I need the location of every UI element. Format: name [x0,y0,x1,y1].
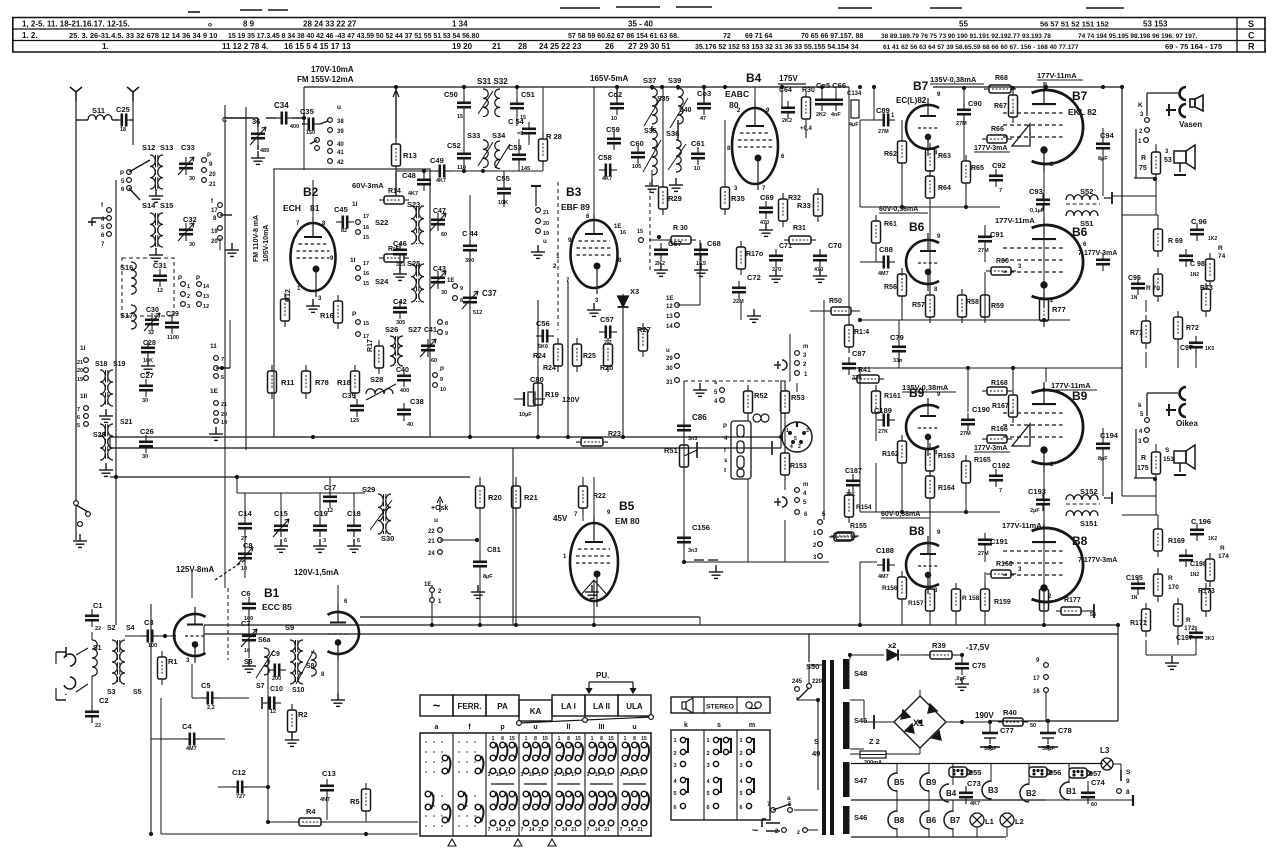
resistor R169 [1154,523,1163,557]
wire [132,101,134,145]
svg-text:R30: R30 [802,87,815,94]
wire B6 ground bus [860,319,1070,321]
svg-text:4N7: 4N7 [320,797,330,803]
wire [1102,453,1104,496]
phone plug 2 [1166,109,1176,111]
svg-text:R77: R77 [1052,305,1066,314]
resistor R54h [829,533,857,541]
button KA [519,700,552,721]
svg-text:125: 125 [350,418,359,424]
wire [91,218,93,226]
contact 17p [1044,675,1049,680]
ground C69 [759,223,773,236]
contact P9 [202,158,207,163]
wire [129,160,150,172]
svg-text:R17o: R17o [746,251,763,258]
svg-text:4K7: 4K7 [408,191,418,197]
button ULA [618,695,651,716]
contact 29 [675,354,680,359]
resistor R24 [554,338,563,372]
contact 7b [84,406,89,411]
svg-text:5: 5 [673,791,676,797]
svg-text:15: 15 [542,736,548,742]
wire [303,113,305,124]
svg-text:Oikea: Oikea [1176,419,1198,428]
junction [848,653,852,657]
junction [723,85,727,89]
svg-text:S39: S39 [668,76,681,85]
svg-text:1E: 1E [666,296,673,302]
wire R28 top [542,87,544,133]
svg-text:10: 10 [611,116,617,122]
PU bracket [586,682,636,693]
contact 22 [438,528,443,533]
resistor R69 [1154,223,1163,257]
wire [219,238,221,250]
svg-text:S5: S5 [133,689,142,696]
svg-text:30: 30 [666,366,673,372]
contact 2 [1145,128,1150,133]
transformer S18 S19 secondary [108,370,113,406]
wire R164 down [929,498,931,589]
capacitor C26 [139,435,153,453]
svg-text:5: 5 [77,423,80,429]
wire to phones b [1147,392,1178,394]
contact 20 [84,368,89,373]
transformer S26 S27 primary [390,336,395,366]
ground var cap [251,151,265,164]
svg-text:C13: C13 [322,769,336,778]
contact P14 [197,282,202,287]
switch bank m [746,737,754,808]
svg-text:1E: 1E [210,388,219,395]
trimmer C43 [431,271,445,289]
svg-text:1: 1 [786,428,789,434]
speaker icon top [1190,95,1203,111]
tube heater B6 [920,811,929,829]
end bar [1132,795,1134,806]
svg-text:3: 3 [187,304,190,310]
wire [92,217,107,219]
S47 winding [843,762,850,797]
switch bank column f [458,741,483,826]
jack m top [782,360,787,370]
contact 245 [795,687,800,692]
contact 12 [197,302,202,307]
resistor R74 [1206,253,1215,287]
resistor R28 [539,133,548,167]
wire S50 feed [808,634,810,662]
junction [468,435,472,439]
contact sw c [78,522,83,527]
svg-text:ECC 85: ECC 85 [262,602,292,612]
svg-text:69 - 75 164 - 175: 69 - 75 164 - 175 [1165,42,1222,51]
svg-text:470: 470 [760,220,769,226]
wire [463,162,465,171]
underline 135V [930,83,984,85]
svg-text:C4: C4 [182,722,192,731]
svg-text:8: 8 [1126,789,1130,796]
capacitor C59 [607,132,621,150]
junction [1011,366,1015,370]
svg-text:B2: B2 [1026,789,1037,798]
tube B1 triode b [328,605,360,661]
capacitor C4 [183,733,201,746]
resistor R40 [998,718,1028,726]
svg-text:S28: S28 [370,375,383,384]
svg-text:35.176 52 152 53 153 32 31 36: 35.176 52 152 53 153 32 31 36 33 55.155 … [695,44,859,51]
wire [677,304,700,306]
ground C70 [813,269,827,282]
wire [863,700,865,722]
svg-text:C79: C79 [890,333,904,342]
junction [682,560,686,564]
resistor R165r [962,455,971,489]
trimmer C33 arrow [178,157,194,175]
svg-text:42: 42 [337,160,344,166]
wire [582,514,584,521]
svg-text:19: 19 [77,377,83,383]
wire [151,738,183,740]
svg-text:30: 30 [142,454,148,460]
S45 winding [843,702,850,749]
svg-text:C72: C72 [747,273,761,282]
fm dipole [56,647,76,700]
transformer S12 S13 primary [150,155,155,189]
svg-text:R177: R177 [1064,597,1081,604]
resistor R166 [982,435,1012,443]
phone hook 1 [1180,87,1187,100]
contact 19d [536,229,541,234]
svg-text:R161: R161 [884,393,901,400]
svg-text:PA: PA [497,702,508,711]
wire C79 top [898,320,900,342]
wire [1045,82,1047,87]
junction [964,205,968,209]
wire [928,764,930,775]
wire [516,112,518,126]
resistor R158 [952,583,961,617]
S33 arrow [478,142,493,166]
junction [592,623,596,627]
wire left amp column [859,120,861,207]
contact 31 [675,378,680,383]
svg-text:10: 10 [440,387,446,393]
wire [984,317,986,320]
svg-text:3: 3 [587,772,590,778]
wire [191,664,193,698]
svg-text:S56: S56 [1048,768,1061,777]
svg-text:9: 9 [445,331,448,337]
svg-text:P: P [120,171,124,177]
contact 21 [202,178,207,183]
ground C18 [347,539,361,552]
junction [478,623,482,627]
svg-text:14: 14 [203,284,210,290]
wire [115,625,117,634]
svg-text:R162: R162 [882,451,899,458]
junction [1101,85,1105,89]
wire [582,477,584,480]
stereo divider1 [703,697,705,713]
wire dashed net [684,380,790,382]
wire [990,764,992,783]
B2 box [274,169,430,437]
svg-text:C35: C35 [300,107,314,116]
wire left drop 2 [160,698,162,834]
bank divider [485,733,487,836]
svg-text:S: S [1248,19,1254,29]
contact 1I-17 [356,220,361,225]
capacitor C75 [955,657,969,675]
svg-text:C2: C2 [99,696,109,705]
capacitor C53 [512,148,526,166]
transformer S14 S15 core [156,213,158,247]
resistor R41 [852,375,884,383]
svg-text:22M: 22M [733,299,744,305]
S46 winding [843,806,850,834]
wire [244,533,246,549]
wire [224,560,226,588]
svg-text:R33: R33 [797,201,811,210]
junction [1042,623,1046,627]
trimmer C32 [179,223,193,241]
wire [955,617,957,625]
svg-text:R59: R59 [991,303,1004,310]
C8 dashed [215,560,245,580]
tube B2 ECH81 [291,217,336,297]
wire [248,647,250,658]
svg-text:P: P [723,424,727,430]
junction [536,435,540,439]
triangle marker B9 [1012,424,1030,446]
wire [952,764,954,786]
svg-text:C51: C51 [521,90,535,99]
wire [751,447,772,449]
coil S33 [483,140,488,168]
mains switch lever [797,688,809,700]
svg-text:41: 41 [337,150,344,156]
svg-text:10: 10 [595,772,601,778]
wire [896,790,898,800]
C10 stub [261,697,263,709]
resistor R72 [1174,311,1183,345]
wire [896,800,898,812]
resistor R172 [1174,598,1183,632]
S34 arrow [495,144,510,168]
svg-text:1: 1 [525,736,528,742]
contact 6c [214,366,219,371]
svg-text:S21: S21 [120,419,133,426]
svg-text:S13: S13 [160,143,173,152]
svg-text:R171: R171 [1130,620,1147,627]
svg-text:S26: S26 [385,325,398,334]
svg-text:S151: S151 [1080,519,1098,528]
lamp L2 [1000,813,1014,827]
svg-text:S27: S27 [408,325,421,334]
svg-text:21: 21 [543,210,549,216]
stereo divider2 [736,697,738,713]
contact 38 [328,118,333,123]
svg-text:C48: C48 [402,171,416,180]
svg-text:200: 200 [272,676,281,682]
wire [1145,352,1147,368]
button FERR. [453,695,486,716]
resistor R57 [926,289,935,323]
contact 4b [1145,428,1150,433]
svg-text:27M: 27M [878,129,889,135]
capacitor C77 [982,722,998,744]
resistor R52 [744,385,753,419]
svg-text:k: k [1138,402,1142,409]
svg-text:15 19 35 17.3.45 8 34 38 40 4: 15 19 35 17.3.45 8 34 38 40 42 46 -43 47… [228,33,480,40]
svg-text:R40: R40 [1003,708,1017,717]
svg-text:B3: B3 [988,786,999,795]
wire [928,828,930,837]
capacitor C17 [323,490,337,508]
wire [901,120,903,141]
svg-text:38: 38 [337,119,344,125]
lamp L3 [1101,758,1113,770]
wire bus AVC [110,436,781,438]
R177 stub [1086,610,1094,612]
contact P8 [438,320,443,325]
speaker left channel [1174,145,1195,175]
tube B6 triode [906,233,939,291]
svg-text:=8: =8 [517,131,523,137]
svg-text:R154: R154 [856,504,872,511]
wire [976,827,978,837]
svg-text:4nF: 4nF [831,112,841,118]
antenna AM 2 [127,87,139,101]
wire [469,255,471,291]
contact pair a [315,138,320,143]
svg-text:20: 20 [543,221,549,227]
capacitor C74 [1081,786,1095,804]
svg-text:R: R [1168,575,1173,582]
wire [963,88,965,104]
junction [462,169,466,173]
svg-text:R56: R56 [884,284,897,291]
wire [860,561,877,563]
transformer S26 S27 secondary [398,336,403,366]
svg-text:50: 50 [1030,723,1036,729]
capacitor C18 [347,519,361,537]
contact 8l [1117,789,1122,794]
wire [796,514,798,522]
capacitor C40 [397,369,411,387]
svg-text:1E: 1E [424,582,431,588]
svg-text:PU.: PU. [596,671,609,680]
svg-text:60: 60 [431,358,437,364]
wire [683,446,685,466]
wire [112,119,119,121]
svg-text:1100: 1100 [167,335,179,341]
svg-text:R39: R39 [932,641,946,650]
tube heater B8 [888,811,897,829]
contact m2 [795,361,800,366]
svg-text:C156: C156 [692,523,710,532]
svg-text:10: 10 [496,772,502,778]
wire left amp column b [859,368,861,512]
svg-text:120V-1,5mA: 120V-1,5mA [294,568,339,577]
wire R61-C88 [875,249,877,262]
wire [542,167,544,171]
trimmer C37 arrow [462,291,478,309]
contact 8e [453,296,458,301]
resistor R19 [534,377,543,411]
resistor R62 [898,135,907,169]
svg-text:24: 24 [428,551,435,557]
S151 stub [1104,497,1112,499]
tube B9 triode [906,398,939,456]
resistor R14 [379,196,409,204]
transformer S22 S23 secondary [419,206,424,244]
svg-text:C53: C53 [508,143,522,152]
wire [303,87,305,113]
wire [515,477,517,486]
wire bottom bus 2 [204,633,1118,635]
S28 arrow [366,384,396,400]
svg-text:10: 10 [694,166,700,172]
resistor R22 [579,480,588,514]
wire [963,120,965,160]
wire B5 top [593,477,595,521]
wire [860,261,877,263]
svg-text:R: R [1141,455,1146,462]
svg-text:47: 47 [700,116,706,122]
wire [1012,88,1014,95]
svg-text:70 65 66 97.157. 88: 70 65 66 97.157. 88 [801,33,863,40]
wire [952,828,954,837]
ground S12 [149,189,163,202]
svg-text:17: 17 [211,208,218,214]
wire [91,676,93,706]
contact 12 [675,303,680,308]
resistor R153 [781,447,790,481]
svg-text:6: 6 [706,805,709,811]
svg-text:20: 20 [221,412,227,418]
svg-text:S19: S19 [113,361,126,368]
capacitor C55 [497,182,511,200]
wire [337,605,339,612]
wire B2 plate [312,180,314,221]
switch bank column u [523,742,550,826]
svg-text:S45: S45 [854,716,867,725]
capacitor C92 [989,169,1003,187]
junction [858,623,862,627]
resistor R77 [1040,293,1049,327]
junction [266,785,270,789]
transformer core bar2 [830,660,834,835]
svg-text:8µF: 8µF [483,574,493,580]
svg-text:C189: C189 [874,406,892,415]
svg-text:S2: S2 [107,625,116,632]
svg-text:C81: C81 [487,545,501,554]
contact 1E2 [430,588,435,593]
tube B3 EBF89 [571,214,618,294]
svg-text:R13: R13 [403,151,417,160]
phone hook 4 [1180,404,1187,417]
wire [984,572,986,589]
capacitor C198 [1179,549,1193,567]
wire [677,120,679,140]
contact k5 [1145,418,1150,423]
svg-text:S35: S35 [644,128,657,135]
switch bank frame [420,733,651,836]
svg-text:12: 12 [327,508,333,514]
wire [1177,345,1179,368]
